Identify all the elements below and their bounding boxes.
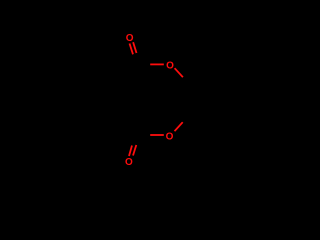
wire C1=O1 double bond line 1 (top carbonyl) (130, 44, 134, 55)
wire O2-CH3 bond (top methyl) (175, 68, 183, 77)
wire C2=O3 double bond line 1 (bottom carbonyl) (129, 146, 132, 157)
wire O4-CH3 bond (bottom methyl) (175, 122, 183, 131)
wire C1-O2 ester bond (top, horizontal) (150, 63, 164, 65)
svg-text:O: O (166, 131, 174, 142)
wire C2-O4 ester bond (bottom, horizontal) (150, 134, 164, 136)
svg-text:O: O (166, 60, 174, 71)
wire C1=O1 double bond line 2 (top carbonyl) (133, 42, 136, 53)
wire C2=O3 double bond line 2 (bottom carbonyl) (133, 145, 136, 156)
svg-text:O: O (126, 33, 134, 44)
svg-text:O: O (125, 157, 133, 168)
